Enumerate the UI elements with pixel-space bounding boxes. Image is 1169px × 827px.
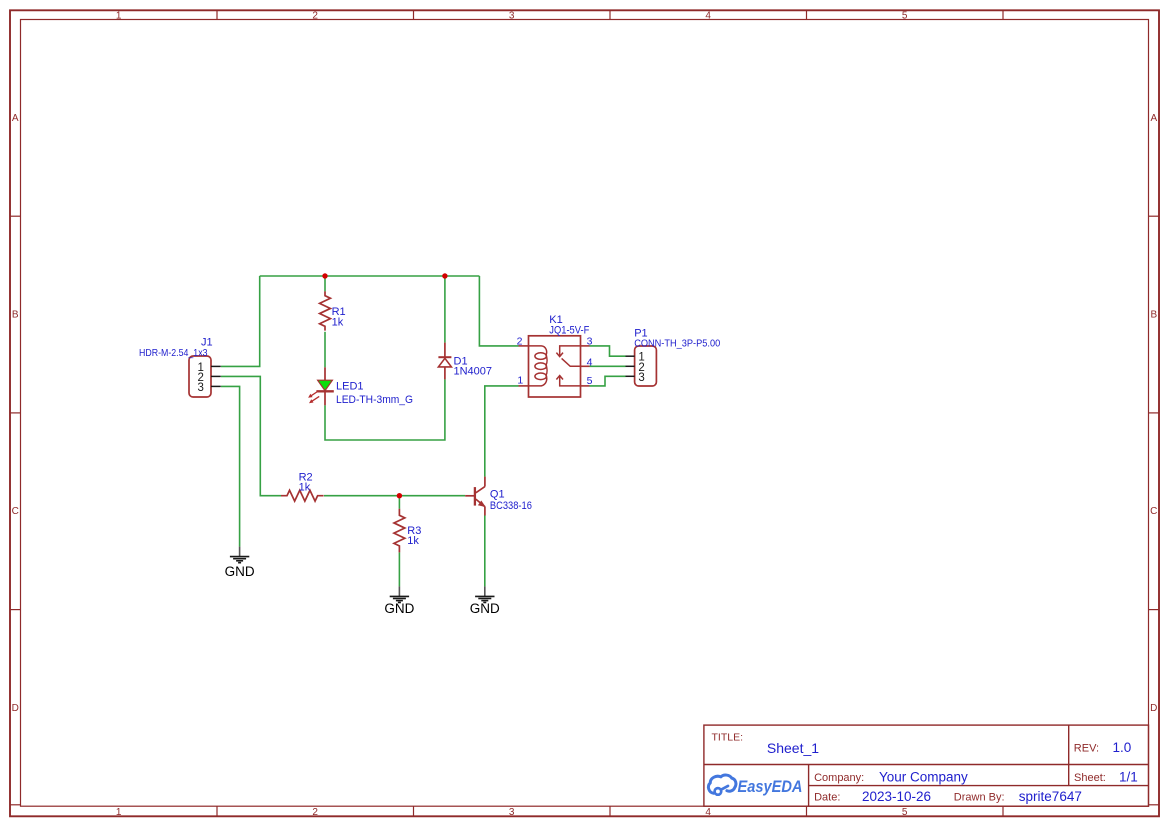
wire rail to D1 cathode (444, 276, 446, 343)
wire rail to K1 pin 2 (479, 276, 518, 346)
relay K1 pin stubs left (519, 346, 530, 386)
diode D1 symbol (438, 343, 451, 380)
svg-text:BC338-16: BC338-16 (490, 500, 532, 512)
transistor Q1 symbol (465, 477, 486, 516)
svg-text:LED1: LED1 (336, 381, 364, 393)
connector J1 body (189, 356, 211, 397)
svg-text:REV:: REV: (1074, 743, 1099, 755)
junction rail/D1 (442, 273, 447, 278)
svg-text:5: 5 (902, 807, 908, 818)
svg-text:Drawn By:: Drawn By: (954, 791, 1005, 803)
svg-text:GND: GND (384, 601, 414, 616)
svg-text:3: 3 (197, 382, 203, 394)
ground GND net J1 (225, 547, 255, 579)
svg-text:A: A (12, 113, 19, 124)
svg-text:3: 3 (509, 807, 515, 818)
svg-text:EasyEDA: EasyEDA (738, 777, 803, 796)
frame row tick left bottom corner (10, 804, 21, 806)
svg-text:5: 5 (587, 375, 593, 387)
svg-text:4: 4 (705, 807, 711, 818)
svg-text:GND: GND (470, 601, 500, 616)
svg-text:3: 3 (509, 10, 515, 21)
svg-text:C: C (1150, 506, 1157, 517)
frame row letters left (12, 113, 19, 714)
frame column ticks bottom (217, 806, 1003, 816)
connector P1 body (635, 346, 657, 386)
frame row tick right bottom corner (1149, 804, 1160, 806)
wire rail to J1 pin 1 (221, 276, 260, 366)
wire top +V rail (260, 275, 480, 277)
svg-text:1: 1 (116, 807, 122, 818)
svg-text:C: C (12, 506, 19, 517)
relay K1 coil (529, 346, 547, 386)
svg-text:LED-TH-3mm_G: LED-TH-3mm_G (336, 394, 413, 406)
svg-text:B: B (12, 310, 19, 321)
frame row ticks left (10, 216, 21, 609)
wire J1 pin 2 to R2 left (221, 376, 281, 495)
svg-text:1N4007: 1N4007 (454, 366, 493, 378)
svg-text:Q1: Q1 (490, 489, 505, 501)
svg-text:1: 1 (116, 10, 122, 21)
svg-text:1k: 1k (299, 482, 311, 494)
wire K1 pin 1 to Q1 collector (485, 386, 519, 477)
LED LED1 symbol (316, 367, 333, 405)
connector P1 pin stubs (626, 356, 635, 376)
svg-text:B: B (1150, 310, 1157, 321)
junction base/R3 (397, 493, 402, 498)
relay K1 contact pin 5 (556, 376, 580, 386)
relay K1 pin stubs right (581, 346, 590, 386)
resistor R2 body (281, 490, 324, 501)
svg-text:2023-10-26: 2023-10-26 (862, 789, 931, 804)
svg-text:2: 2 (312, 807, 318, 818)
LED LED1 emission arrows (308, 391, 319, 403)
frame column numbers top (116, 10, 908, 21)
svg-text:Your Company: Your Company (879, 770, 968, 785)
svg-text:D: D (1150, 703, 1157, 714)
wire R3 bottom to GND (398, 552, 400, 586)
frame column ticks top (217, 10, 1003, 19)
svg-text:sprite7647: sprite7647 (1019, 789, 1082, 804)
svg-text:Sheet:: Sheet: (1074, 772, 1106, 784)
svg-text:CONN-TH_3P-P5.00: CONN-TH_3P-P5.00 (634, 338, 720, 350)
svg-text:5: 5 (902, 10, 908, 21)
wire K1 pin 3 to P1 pin 1 (590, 346, 626, 356)
ground GND net Q1 (470, 586, 500, 616)
connector J1 pin numbers (197, 362, 203, 394)
svg-text:3: 3 (587, 335, 593, 347)
svg-text:A: A (1150, 113, 1157, 124)
relay K1 contact pin 3 (556, 346, 580, 357)
relay K1 body (529, 336, 581, 397)
svg-text:Company:: Company: (814, 772, 864, 784)
svg-text:2: 2 (517, 336, 523, 348)
svg-text:TITLE:: TITLE: (712, 732, 744, 744)
frame row letters right (1150, 113, 1157, 714)
wire LED1 cathode to D1 anode (325, 379, 445, 440)
title block grid (704, 725, 1149, 806)
EasyEDA logo cloud icon (708, 775, 735, 795)
wire R1 bottom to LED1 anode (324, 332, 326, 368)
wire Q1 emitter to GND (484, 516, 486, 587)
svg-text:2: 2 (312, 10, 318, 21)
connector P1 pin numbers (638, 352, 644, 384)
svg-text:1k: 1k (332, 316, 344, 328)
wire node to R3 top (398, 496, 400, 509)
resistor R1 body (320, 291, 331, 330)
frame row ticks right (1149, 216, 1160, 609)
resistor R3 body (394, 509, 405, 553)
wire K1 pin 4 to P1 pin 2 (590, 365, 626, 367)
svg-text:3: 3 (638, 372, 644, 384)
svg-text:1.0: 1.0 (1113, 740, 1132, 755)
connector J1 pin stubs (211, 366, 221, 386)
svg-text:4: 4 (587, 357, 593, 369)
svg-text:Date:: Date: (814, 791, 840, 803)
svg-text:1/1: 1/1 (1119, 769, 1138, 784)
svg-text:1k: 1k (407, 535, 419, 547)
wire rail to R1 top (324, 276, 326, 291)
svg-text:GND: GND (225, 564, 255, 579)
svg-text:4: 4 (705, 10, 711, 21)
wire K1 pin 5 to P1 pin 3 (590, 376, 626, 386)
ground GND net R3 (384, 586, 414, 616)
frame column numbers bottom (116, 807, 908, 818)
svg-text:HDR-M-2.54_1x3: HDR-M-2.54_1x3 (139, 347, 208, 359)
svg-text:D: D (12, 703, 19, 714)
wire J1 pin 3 to GND (221, 386, 240, 546)
wire R2 right to Q1 base (324, 495, 465, 497)
svg-text:JQ1-5V-F: JQ1-5V-F (549, 325, 589, 337)
relay K1 common blade pin 4 (562, 358, 581, 366)
junction rail/R1 (322, 273, 327, 278)
svg-text:1: 1 (517, 375, 523, 387)
svg-text:Sheet_1: Sheet_1 (767, 740, 819, 756)
